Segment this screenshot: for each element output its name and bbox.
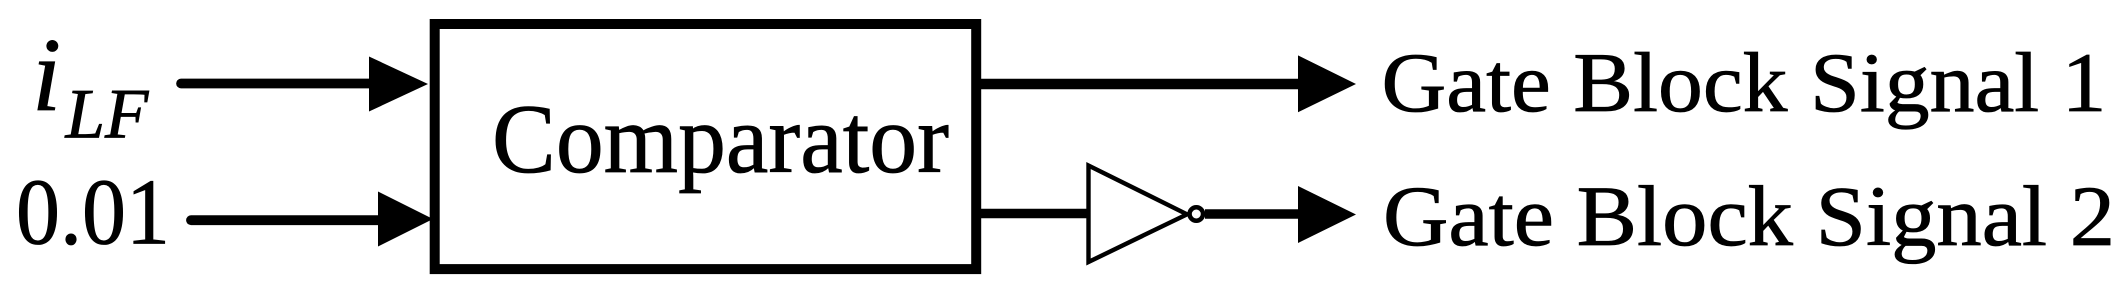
svg-text:i: i xyxy=(32,17,61,133)
svg-text:LF: LF xyxy=(65,76,149,154)
svg-text:Gate Block Signal 1: Gate Block Signal 1 xyxy=(1382,36,2107,130)
svg-text:Comparator: Comparator xyxy=(492,85,949,194)
svg-text:0.01: 0.01 xyxy=(16,161,170,265)
svg-text:Gate Block Signal 2: Gate Block Signal 2 xyxy=(1383,168,2115,264)
